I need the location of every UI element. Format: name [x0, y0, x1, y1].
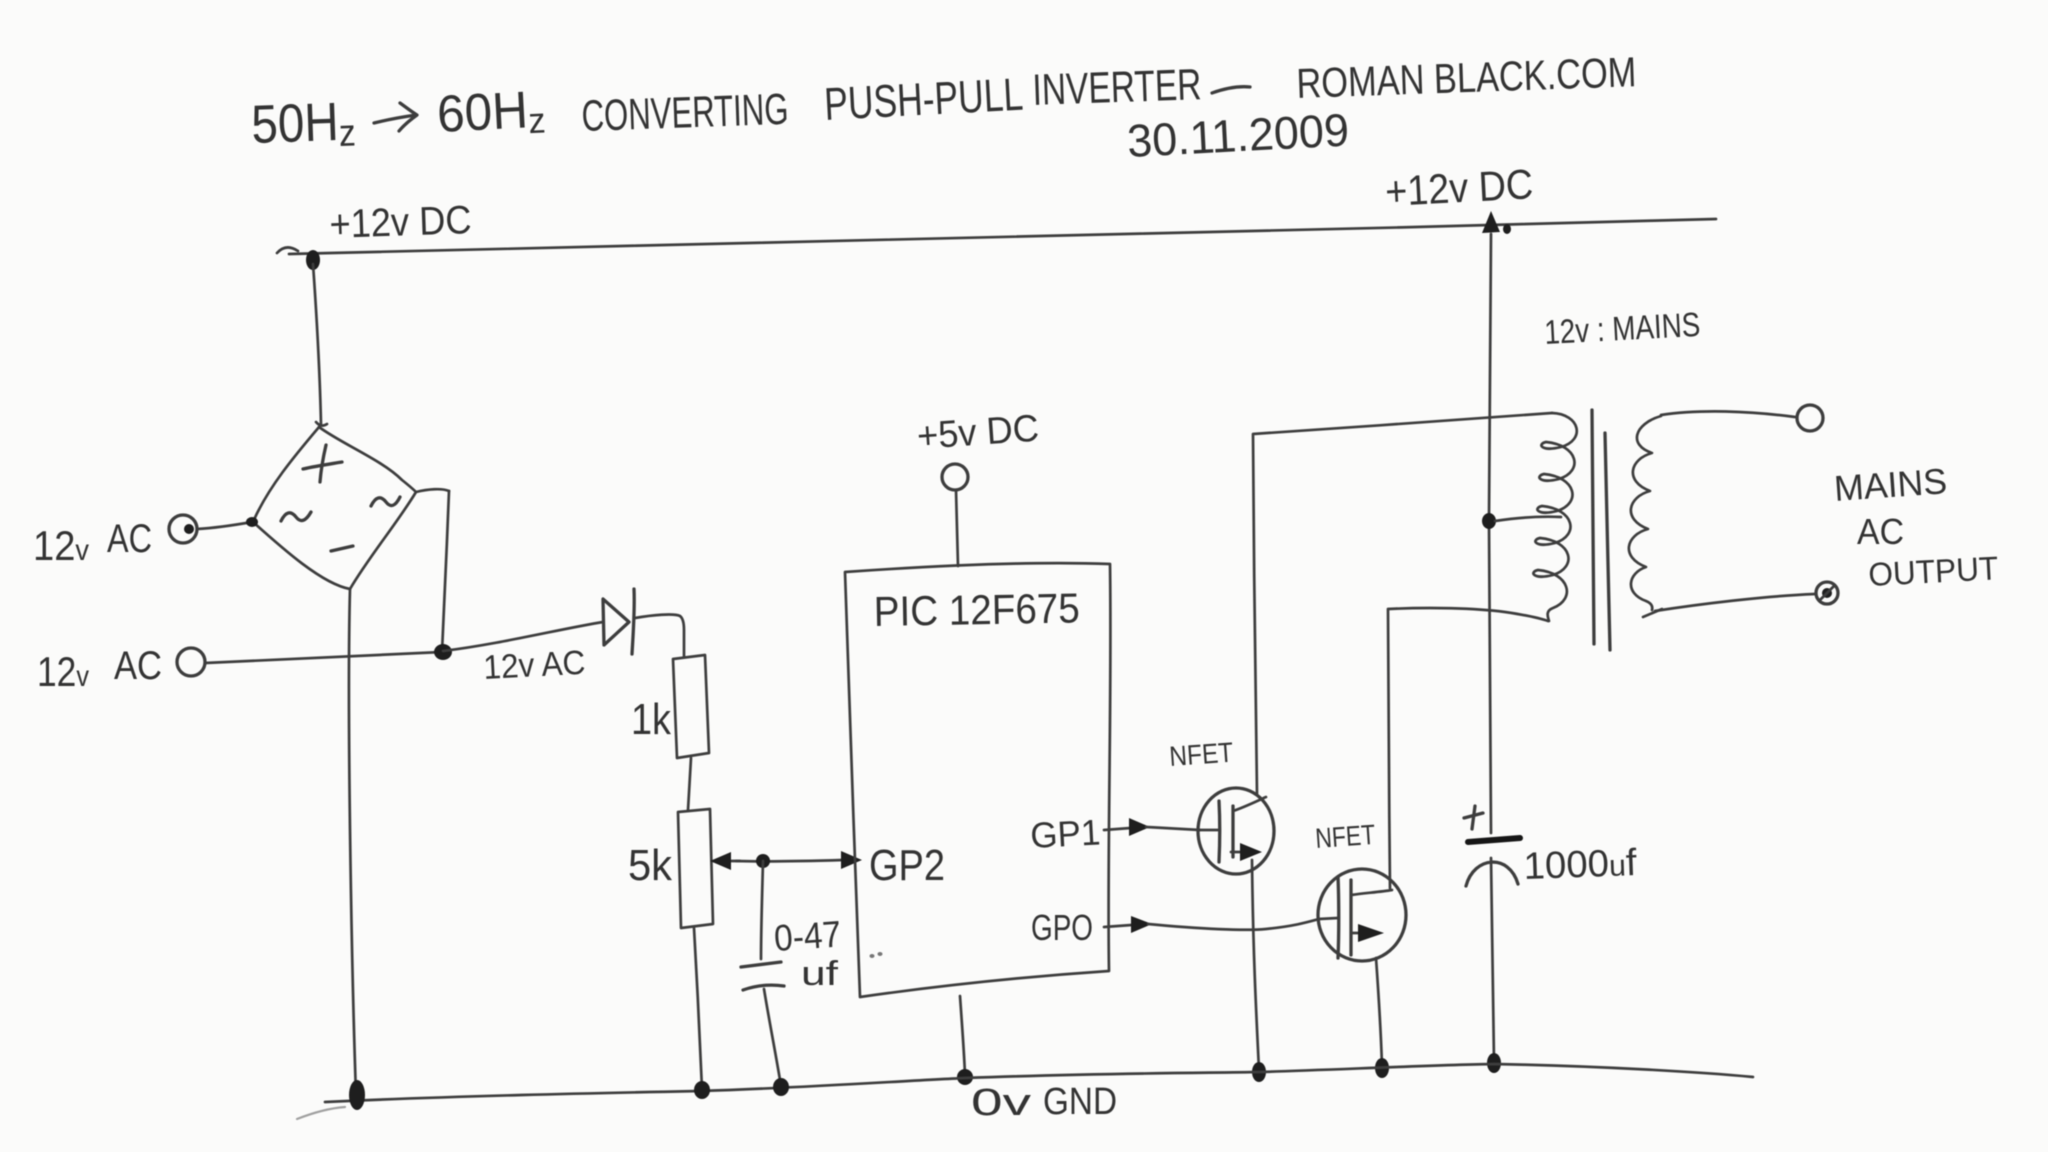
svg-text:0v: 0v	[971, 1082, 1031, 1124]
wire: 5k bottom to ground	[694, 928, 702, 1089]
bridge - mark	[331, 546, 353, 551]
node: AC junction dot	[434, 644, 452, 660]
node: transformer center tap dot	[1482, 513, 1496, 529]
svg-text:NFET: NFET	[1314, 819, 1376, 854]
bridge ~ mark right	[371, 497, 400, 506]
terminal: 12v AC lower	[177, 648, 205, 676]
transformer T1 secondary coil	[1629, 416, 1661, 610]
svg-text:GP2: GP2	[869, 841, 945, 890]
node: wiper junction dot	[756, 854, 770, 868]
transistor Q2 NFET	[1318, 869, 1406, 961]
label 12v AC upper	[33, 517, 152, 569]
pot wiper arrow	[710, 852, 740, 870]
svg-text:60Hz: 60Hz	[436, 80, 547, 146]
wire: Q1 source to ground	[1252, 860, 1259, 1070]
node: pot ground dot	[694, 1081, 710, 1099]
node: PIC ground dot	[957, 1069, 973, 1085]
title dash	[1212, 87, 1250, 93]
wire: secondary top to output terminal	[1661, 411, 1795, 417]
svg-text:0-47: 0-47	[773, 913, 843, 959]
label 0-47 uf	[773, 913, 843, 993]
capacitor 0.47uF lead	[761, 861, 763, 959]
svg-text:1k: 1k	[631, 695, 672, 744]
wire: +12V rail down to center tap and cap	[1489, 234, 1491, 833]
svg-text:AC: AC	[114, 644, 162, 688]
wire: wiper to GP2	[736, 860, 843, 861]
wire: GP1 to NFET1 gate with arrow	[1104, 818, 1200, 836]
wire: Q2 source to ground	[1376, 958, 1382, 1066]
arrow into GP2	[841, 851, 862, 869]
svg-text:12v: 12v	[33, 522, 89, 569]
wire: cap to ground	[764, 989, 781, 1086]
svg-text:12v: 12v	[37, 648, 89, 695]
svg-text:+12v DC: +12v DC	[1384, 160, 1534, 215]
wire: PIC bottom pin to ground	[960, 996, 965, 1075]
svg-text:INVERTER: INVERTER	[1032, 60, 1203, 115]
svg-text:12v AC: 12v AC	[482, 644, 586, 687]
wire: diode to 1k	[635, 615, 684, 657]
transformer T1 primary coil	[1533, 413, 1576, 621]
node: Q2 source ground dot	[1375, 1058, 1389, 1078]
bridge rectifier	[253, 422, 416, 589]
node: 1000uF ground dot	[1487, 1053, 1501, 1073]
title arrow	[374, 103, 417, 131]
wire: 1k to 5k	[688, 758, 691, 810]
wire: GP0 to NFET2 gate with arrow	[1104, 916, 1319, 933]
wire: center tap to primary	[1495, 517, 1561, 521]
ground rail stray stroke	[297, 1107, 345, 1119]
terminal: mains output bottom	[1816, 582, 1838, 604]
transistor Q1 NFET	[1198, 788, 1274, 874]
wire: bridge right vertex down to junction	[416, 489, 449, 652]
node: bridge left vertex blob	[246, 517, 258, 527]
+5V DC terminal	[942, 464, 968, 566]
diode D1 anode wire	[443, 622, 603, 651]
svg-text:uf: uf	[801, 955, 839, 993]
svg-text:GPO: GPO	[1031, 907, 1093, 948]
node: +12V right junction (arrow blob)	[1482, 211, 1511, 234]
resistor 1k	[673, 655, 709, 758]
svg-text:1000uf: 1000uf	[1523, 842, 1638, 888]
+12V DC rail wire	[277, 219, 1716, 254]
svg-text:AC: AC	[1857, 511, 1904, 552]
potentiometer 5k	[678, 809, 713, 928]
svg-text:+5v DC: +5v DC	[916, 408, 1041, 458]
title: 50Hz to 60Hz converting push-pull inverter	[250, 60, 1202, 158]
node: Q1 source ground dot	[1252, 1062, 1266, 1082]
wire: rail to bridge top	[313, 264, 321, 424]
svg-text:GND: GND	[1043, 1081, 1117, 1123]
svg-text:12v : MAINS: 12v : MAINS	[1543, 306, 1701, 352]
terminal: mains output top	[1797, 405, 1823, 431]
svg-text:OUTPUT: OUTPUT	[1867, 549, 1999, 593]
wire: Q1 drain up and to transformer primary top	[1253, 413, 1552, 794]
capacitor 1000uF	[1464, 806, 1520, 1061]
stray ink dots near PIC left edge	[870, 952, 883, 958]
wire: terminal to bridge left	[197, 522, 252, 529]
svg-text:AC: AC	[107, 517, 152, 561]
ground rail wire	[325, 1064, 1753, 1102]
terminal: 12v AC upper	[169, 515, 197, 543]
svg-text:MAINS: MAINS	[1833, 460, 1949, 509]
svg-text:NFET: NFET	[1168, 737, 1234, 772]
secondary coil end hook	[1643, 609, 1662, 617]
label 12v AC lower	[37, 644, 162, 695]
svg-text:ROMAN BLACK.COM: ROMAN BLACK.COM	[1296, 48, 1637, 107]
node: bridge ground dot	[349, 1080, 365, 1110]
wire: lower terminal to junction	[205, 652, 442, 663]
wire: bridge bottom to ground	[349, 589, 356, 1095]
svg-text:PIC 12F675: PIC 12F675	[873, 584, 1080, 635]
svg-text:CONVERTING: CONVERTING	[581, 85, 790, 141]
svg-text:+12v DC: +12v DC	[329, 198, 472, 247]
diode D1	[603, 589, 634, 654]
bridge + mark	[303, 445, 342, 482]
bridge ~ mark left	[281, 512, 311, 521]
label MAINS AC OUTPUT	[1833, 460, 1999, 593]
wire: secondary bottom to output terminal	[1655, 594, 1815, 611]
svg-text:50Hz: 50Hz	[250, 91, 356, 158]
IC PIC 12F675 box	[845, 563, 1110, 997]
svg-text:GP1: GP1	[1029, 811, 1101, 856]
node: +12V left junction	[306, 250, 320, 270]
transformer T1 core	[1592, 410, 1610, 650]
svg-text:30.11.2009: 30.11.2009	[1126, 103, 1350, 167]
svg-text:PUSH-PULL: PUSH-PULL	[823, 68, 1024, 130]
label 0V GND	[971, 1081, 1117, 1124]
svg-text:5k: 5k	[628, 841, 673, 890]
node: cap ground dot	[773, 1078, 789, 1096]
wire: Q2 drain up and to transformer primary bottom	[1388, 608, 1548, 888]
capacitor 0.47uF plates	[741, 962, 784, 990]
